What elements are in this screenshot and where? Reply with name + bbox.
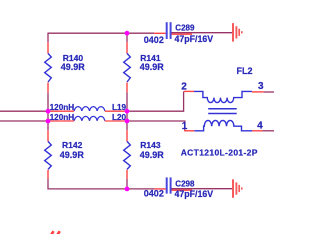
wire from FL2 pin 4 to right edge [263, 130, 274, 132]
label R140 value 49.9R [61, 53, 86, 72]
wire right rail middle segment [126, 92, 128, 130]
junction node dot row1 right rail [125, 109, 130, 114]
junction node dot row2 left rail [46, 119, 51, 124]
wire row2 from left edge to left rail [0, 120, 48, 122]
svg-text:120nH: 120nH [50, 103, 75, 112]
FL2 pin 1 [184, 130, 194, 132]
power ground symbol top right [233, 23, 242, 41]
svg-text:ACT1210L-201-2P: ACT1210L-201-2P [181, 148, 258, 158]
svg-text:2: 2 [181, 81, 187, 92]
junction node dot row2 right rail [125, 119, 130, 124]
power ground symbol bottom right [233, 179, 242, 198]
wire row1 from left edge to left rail [0, 110, 48, 112]
svg-text:4: 4 [257, 120, 263, 131]
capacitor C298 [155, 177, 192, 193]
wire right rail lower segment [126, 179, 128, 190]
svg-text:L20: L20 [112, 113, 127, 122]
junction node dot top at right rail [125, 31, 130, 36]
wire bottom net from capacitor C298 to power symbol [172, 188, 234, 190]
wire row2 from right rail to FL2 pin 1 with vertical jog [127, 121, 185, 131]
FL2 core lines [208, 108, 237, 110]
wire bottom net from left rail corner to capacitor C298 [48, 188, 155, 190]
svg-text:47pF/16V: 47pF/16V [175, 189, 214, 199]
svg-text:49.9R: 49.9R [60, 150, 85, 160]
svg-text:3: 3 [258, 81, 264, 92]
wire top net from left rail corner to capacitor C289 [48, 32, 154, 34]
label R143 value 49.9R [140, 140, 165, 160]
label R142 value 49.9R [60, 140, 85, 160]
wire left rail lower segment [47, 179, 49, 190]
svg-text:49.9R: 49.9R [140, 150, 165, 160]
svg-text:L19: L19 [112, 103, 127, 112]
inductor L20 [48, 116, 127, 121]
junction node dot row1 left rail [46, 109, 51, 114]
svg-text:R143: R143 [140, 140, 161, 150]
label R141 value 49.9R [140, 53, 165, 72]
resistor R143 [124, 130, 131, 179]
svg-text:0402: 0402 [144, 35, 164, 45]
svg-text:47pF/16V: 47pF/16V [175, 34, 214, 44]
capacitor C289 [154, 22, 192, 39]
FL2 pin 4 [252, 130, 262, 132]
svg-text:120nH: 120nH [50, 113, 75, 122]
wire left rail middle segment [47, 92, 49, 130]
wire from FL2 pin 3 to right edge [264, 91, 274, 93]
svg-text:C298: C298 [175, 179, 195, 188]
junction node dot bottom at right rail [125, 187, 130, 192]
FL2 pin 3 [252, 91, 264, 93]
wire left rail upper segment [47, 33, 49, 43]
wire row1 from right rail to FL2 pin 2 with vertical jog [127, 91, 184, 111]
resistor R140 [45, 42, 52, 92]
FL2 top winding [194, 91, 252, 102]
wire top net from capacitor C289 to power symbol [172, 32, 234, 34]
svg-text:49.9R: 49.9R [140, 62, 165, 72]
red marks bottom left (clipped text) [50, 231, 60, 237]
common-mode choke FL2 [184, 91, 264, 130]
svg-text:0402: 0402 [144, 189, 164, 199]
svg-text:R142: R142 [62, 140, 83, 150]
svg-text:C289: C289 [175, 23, 195, 32]
FL2 pin 2 [184, 90, 194, 92]
inductor L19 [48, 107, 127, 112]
resistor R142 [45, 130, 52, 179]
svg-text:49.9R: 49.9R [61, 62, 86, 72]
svg-text:1: 1 [182, 121, 188, 132]
svg-text:FL2: FL2 [237, 66, 253, 76]
FL2 bottom winding [194, 120, 252, 130]
wire right rail upper segment [126, 33, 128, 43]
resistor R141 [124, 42, 131, 92]
